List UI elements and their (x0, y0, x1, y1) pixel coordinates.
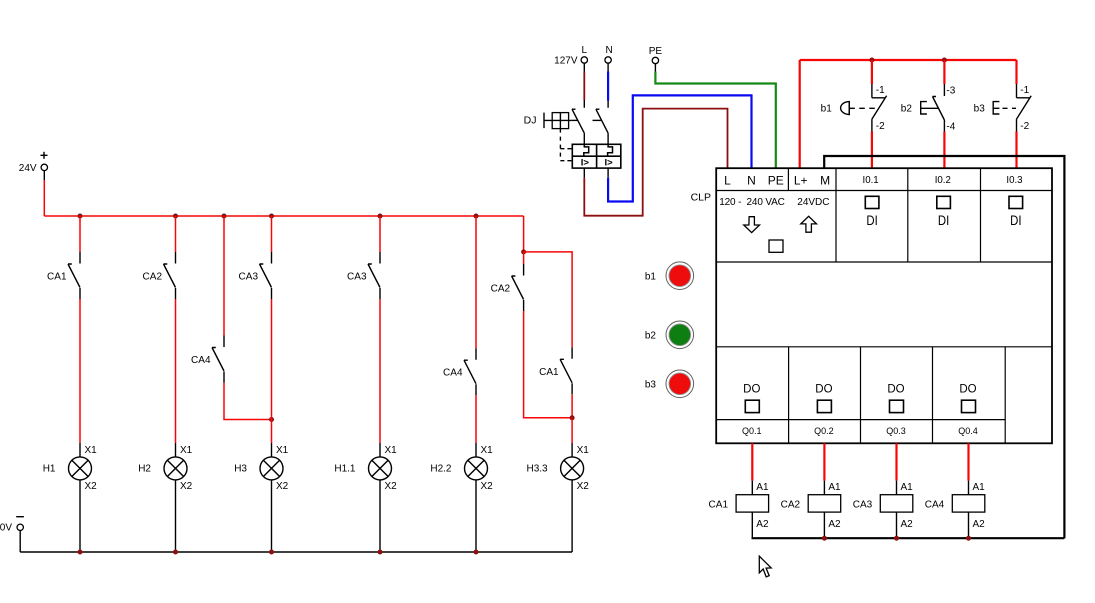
svg-text:b3: b3 (645, 380, 657, 391)
svg-text:DO: DO (815, 383, 832, 395)
wire N to breaker DJ (607, 63, 609, 100)
svg-text:Q0.3: Q0.3 (886, 426, 906, 436)
svg-text:X1: X1 (481, 445, 494, 456)
contactor coil CA3 (853, 482, 913, 530)
svg-text:DI: DI (938, 213, 949, 228)
svg-text:A2: A2 (756, 519, 769, 530)
svg-text:Q0.2: Q0.2 (814, 426, 834, 436)
lamp H1.1 (334, 443, 397, 552)
contact CA4 (NO) (191, 336, 224, 383)
svg-text:CA1: CA1 (709, 500, 729, 511)
svg-text:Q0.4: Q0.4 (958, 426, 978, 436)
PLC input DI I0.1 (865, 196, 879, 228)
lamp H2.2 (430, 443, 493, 552)
svg-text:DI: DI (866, 213, 877, 228)
node bus / CA3 branch (269, 214, 274, 219)
node bus / CA4 branch (222, 214, 227, 219)
svg-text:H3.3: H3.3 (526, 464, 548, 475)
svg-text:CA2: CA2 (143, 272, 163, 283)
wire Q0.3 to coil CA3 (895, 443, 897, 494)
svg-text:X2: X2 (577, 481, 590, 492)
node bus / CA1 branch (78, 214, 83, 219)
wire contact CA4 to lamp H2.2 (475, 395, 477, 443)
svg-text:H1: H1 (43, 464, 56, 475)
svg-text:DJ: DJ (524, 115, 537, 127)
wire PE to CLP PE (655, 64, 775, 169)
wire bus corner down to split node (523, 216, 525, 252)
contact CA2 second (NO) (491, 264, 524, 311)
svg-text:-4: -4 (946, 121, 955, 132)
wire contact CA1 to lamp H1 (79, 299, 81, 443)
svg-text:L: L (724, 174, 731, 188)
svg-text:DO: DO (887, 383, 904, 395)
node 0V / H2 (173, 550, 178, 555)
terminal L 127V (554, 45, 587, 67)
PLC section separator (inputs) (716, 261, 1052, 263)
PLC DO divider 4 (1004, 347, 1006, 444)
node A2 bus / CA4 (966, 536, 971, 541)
svg-text:A1: A1 (901, 482, 914, 493)
mouse cursor (759, 556, 771, 577)
breaker DJ trip unit box (572, 144, 621, 168)
node A2 bus / CA2 (822, 536, 827, 541)
svg-text:120 - 240 VAC: 120 - 240 VAC (719, 197, 785, 208)
node A2 bus / CA3 (894, 536, 899, 541)
svg-text:I0.2: I0.2 (935, 175, 951, 186)
svg-text:-2: -2 (876, 121, 885, 132)
wire pushbutton b3 to I0.3 (1015, 132, 1017, 169)
svg-text:X2: X2 (85, 481, 98, 492)
svg-text:X2: X2 (276, 481, 289, 492)
wire Q0.1 to coil CA1 (751, 443, 753, 494)
PLC inverter arrow (up) (801, 216, 817, 232)
svg-text:PE: PE (768, 174, 784, 188)
PLC power terminal labels (724, 174, 830, 188)
svg-text:H3: H3 (234, 464, 247, 475)
svg-text:M: M (820, 174, 830, 188)
lamp H3.3 (526, 443, 589, 552)
wire CLP L+ riser (799, 60, 801, 168)
contact CA3 second (NO) (347, 252, 380, 299)
wire join to lamp H3.3 (571, 418, 573, 443)
node bus / CA4 second branch (474, 214, 479, 219)
svg-text:H2.2: H2.2 (430, 464, 452, 475)
breaker DJ pole L contact (572, 100, 584, 144)
svg-text:CA2: CA2 (781, 500, 801, 511)
wire pushbutton b1 to I0.1 (871, 132, 873, 169)
wire A2 return bus (752, 537, 1065, 539)
contact CA1 second (NO) (539, 347, 572, 394)
wire 24V pushbutton bus (800, 59, 1017, 61)
svg-text:I0.3: I0.3 (1006, 175, 1022, 186)
svg-text:I>: I> (605, 157, 614, 168)
24V supply terminal (19, 152, 48, 174)
svg-text:X2: X2 (385, 481, 398, 492)
wire bus to contact CA1 (79, 216, 81, 252)
PLC output DO Q0.3 (887, 383, 904, 412)
pushbutton b1 (NC, mushroom head) (821, 84, 887, 132)
node bus / CA3 second branch (378, 214, 383, 219)
PLC terminal divider L/N/PE | L+/M (787, 168, 789, 190)
svg-text:CA3: CA3 (853, 500, 873, 511)
wire bus to pushbutton b1 (871, 60, 873, 84)
indicator lamp b3 (red) (645, 370, 694, 398)
svg-text:X1: X1 (180, 445, 193, 456)
PLC CLP outer box (716, 168, 1052, 443)
contact CA4 second (NO) (443, 348, 476, 395)
svg-text:I0.1: I0.1 (863, 175, 879, 186)
PLC output DO Q0.2 (815, 383, 832, 412)
wire bus to second contact CA4 (475, 216, 477, 348)
PLC section separator (outputs) (716, 346, 1052, 348)
svg-text:24V: 24V (19, 163, 37, 174)
node 0V / H1.1 (378, 550, 383, 555)
wire Q0.4 to coil CA4 (967, 443, 969, 494)
wire split to contact CA2 (523, 252, 525, 264)
PLC input DI I0.2 (937, 196, 951, 228)
wire bus to contact CA4 (223, 216, 225, 336)
svg-text:DI: DI (1010, 213, 1021, 228)
svg-text:A2: A2 (901, 519, 914, 530)
svg-text:A2: A2 (828, 519, 841, 530)
svg-text:L+: L+ (794, 174, 808, 188)
PLC DO divider 2 (860, 347, 862, 444)
svg-text:PE: PE (649, 46, 663, 57)
wire contact CA4 to CA3 branch (224, 383, 272, 420)
wire contact CA2 to lamp H2 (175, 299, 177, 443)
svg-text:H2: H2 (138, 464, 151, 475)
PLC input DI I0.3 (1009, 196, 1023, 228)
svg-text:CLP: CLP (691, 192, 711, 204)
svg-text:CA4: CA4 (191, 355, 211, 366)
PLC DO divider 3 (932, 347, 934, 444)
indicator lamp b1 (red) (645, 262, 694, 290)
wire CLP M loop (824, 156, 1064, 538)
svg-text:DO: DO (743, 383, 760, 395)
wire coil CA4 to A2 bus (968, 512, 970, 538)
svg-text:X1: X1 (85, 445, 98, 456)
svg-text:-1: -1 (1020, 85, 1029, 96)
lamp H3 (234, 443, 288, 552)
pushbutton b3 (NC, flat head) (974, 84, 1032, 132)
svg-text:Q0.1: Q0.1 (742, 426, 762, 436)
PLC terminal divider L+/M | I0.1 (835, 168, 837, 262)
wire coil CA2 to A2 bus (823, 512, 825, 538)
svg-text:b1: b1 (821, 104, 833, 115)
node bus / CA2 branch (173, 214, 178, 219)
wire bus to pushbutton b2 (943, 60, 945, 84)
wire L to breaker DJ (583, 63, 585, 100)
lamp H1 (43, 443, 97, 552)
PLC output DO Q0.4 (959, 383, 976, 412)
wire coil CA3 to A2 bus (896, 512, 898, 538)
node pushbutton bus / b1 (869, 58, 874, 63)
svg-text:CA3: CA3 (347, 272, 367, 283)
indicator lamp b2 (green) (645, 321, 694, 349)
svg-text:CA4: CA4 (925, 500, 945, 511)
svg-text:A1: A1 (756, 482, 769, 493)
breaker DJ trip linkage (dashed) (560, 129, 572, 161)
svg-text:X1: X1 (577, 445, 590, 456)
svg-text:CA3: CA3 (239, 272, 259, 283)
contact CA2 (NO) (143, 252, 176, 299)
svg-text:127V: 127V (554, 56, 578, 67)
lamp H2 (138, 443, 192, 552)
svg-text:-1: -1 (876, 85, 885, 96)
svg-text:A2: A2 (973, 519, 986, 530)
node pushbutton bus / b2 (942, 58, 947, 63)
terminal N (605, 45, 613, 63)
wire contact CA1 to join (571, 394, 573, 418)
svg-text:CA1: CA1 (539, 367, 559, 378)
node 0V / H3 (269, 550, 274, 555)
node 0V / H1 (78, 550, 83, 555)
svg-text:N: N (605, 45, 612, 56)
breaker DJ thermal element L (584, 144, 589, 156)
PLC rectifier arrow (down) (744, 217, 760, 233)
svg-text:CA1: CA1 (47, 272, 67, 283)
PLC Q row separator (716, 419, 1005, 421)
node CA2 / CA1 split (521, 249, 526, 254)
wire breaker L to CLP L (584, 109, 727, 216)
contactor coil CA4 (925, 482, 985, 530)
pushbutton b2 (NO, flat head) (901, 84, 956, 132)
PLC output DO Q0.1 (743, 383, 760, 412)
svg-text:b1: b1 (645, 272, 657, 283)
svg-text:H1.1: H1.1 (334, 464, 356, 475)
svg-text:I>: I> (581, 157, 590, 168)
wire bus to contact CA2 (175, 216, 177, 252)
contact CA1 (NO) (47, 252, 80, 299)
svg-text:DO: DO (959, 383, 976, 395)
wire pushbutton b2 to I0.2 (943, 132, 945, 169)
svg-text:X1: X1 (385, 445, 398, 456)
wire bus to pushbutton b3 (1015, 60, 1017, 84)
wire breaker N to CLP N (608, 95, 751, 201)
svg-text:-3: -3 (946, 85, 955, 96)
svg-text:CA4: CA4 (443, 368, 463, 379)
wire coil CA1 to A2 bus (751, 512, 753, 538)
terminal PE (649, 46, 663, 64)
breaker DJ thermal element N (608, 144, 613, 156)
wire 0V return bus (20, 551, 572, 553)
svg-text:24VDC: 24VDC (797, 197, 829, 208)
svg-text:L: L (582, 45, 588, 56)
svg-text:0V: 0V (0, 523, 12, 534)
node CA4 / CA3 junction (269, 417, 274, 422)
node CA2 / CA1 join (570, 415, 575, 420)
PLC power indicator square (769, 240, 783, 252)
PLC power rating labels (719, 197, 829, 208)
0V supply terminal (0, 517, 24, 534)
wire contact CA3 to lamp H1.1 (379, 299, 381, 443)
wire split to contact CA1 (524, 252, 573, 347)
wire bus to second contact CA3 (379, 216, 381, 252)
svg-text:b3: b3 (974, 104, 986, 115)
breaker DJ pole N contact (596, 101, 608, 145)
PLC terminal row separator (716, 190, 1052, 192)
svg-text:X1: X1 (276, 445, 289, 456)
svg-text:X2: X2 (180, 481, 193, 492)
svg-text:b2: b2 (645, 331, 657, 342)
svg-text:A1: A1 (828, 482, 841, 493)
svg-text:N: N (747, 174, 756, 188)
svg-text:-2: -2 (1020, 121, 1029, 132)
wire contact CA2 to join (524, 311, 573, 418)
PLC DO divider 1 (788, 347, 790, 444)
svg-text:CA2: CA2 (491, 284, 511, 295)
svg-text:b2: b2 (901, 104, 913, 115)
breaker DJ mechanical link (dashed) (572, 119, 601, 121)
svg-text:A1: A1 (973, 482, 986, 493)
wire contact CA3 to lamp H3 (271, 299, 273, 443)
breaker DJ operating mechanism (544, 113, 572, 129)
wire 24V terminal to bus (43, 171, 45, 216)
contact CA3 (NO) (239, 252, 272, 299)
contactor coil CA1 (709, 482, 769, 530)
wire Q0.2 to coil CA2 (823, 443, 825, 494)
PLC divider I0.2 | I0.3 (980, 168, 982, 262)
contactor coil CA2 (781, 482, 841, 530)
wire 24V supply bus (44, 215, 523, 217)
svg-text:X2: X2 (481, 481, 494, 492)
PLC divider I0.1 | I0.2 (907, 168, 909, 262)
wire bus to contact CA3 (271, 216, 273, 252)
node 0V / H2.2 (474, 550, 479, 555)
wire 0V terminal drop (19, 531, 21, 553)
